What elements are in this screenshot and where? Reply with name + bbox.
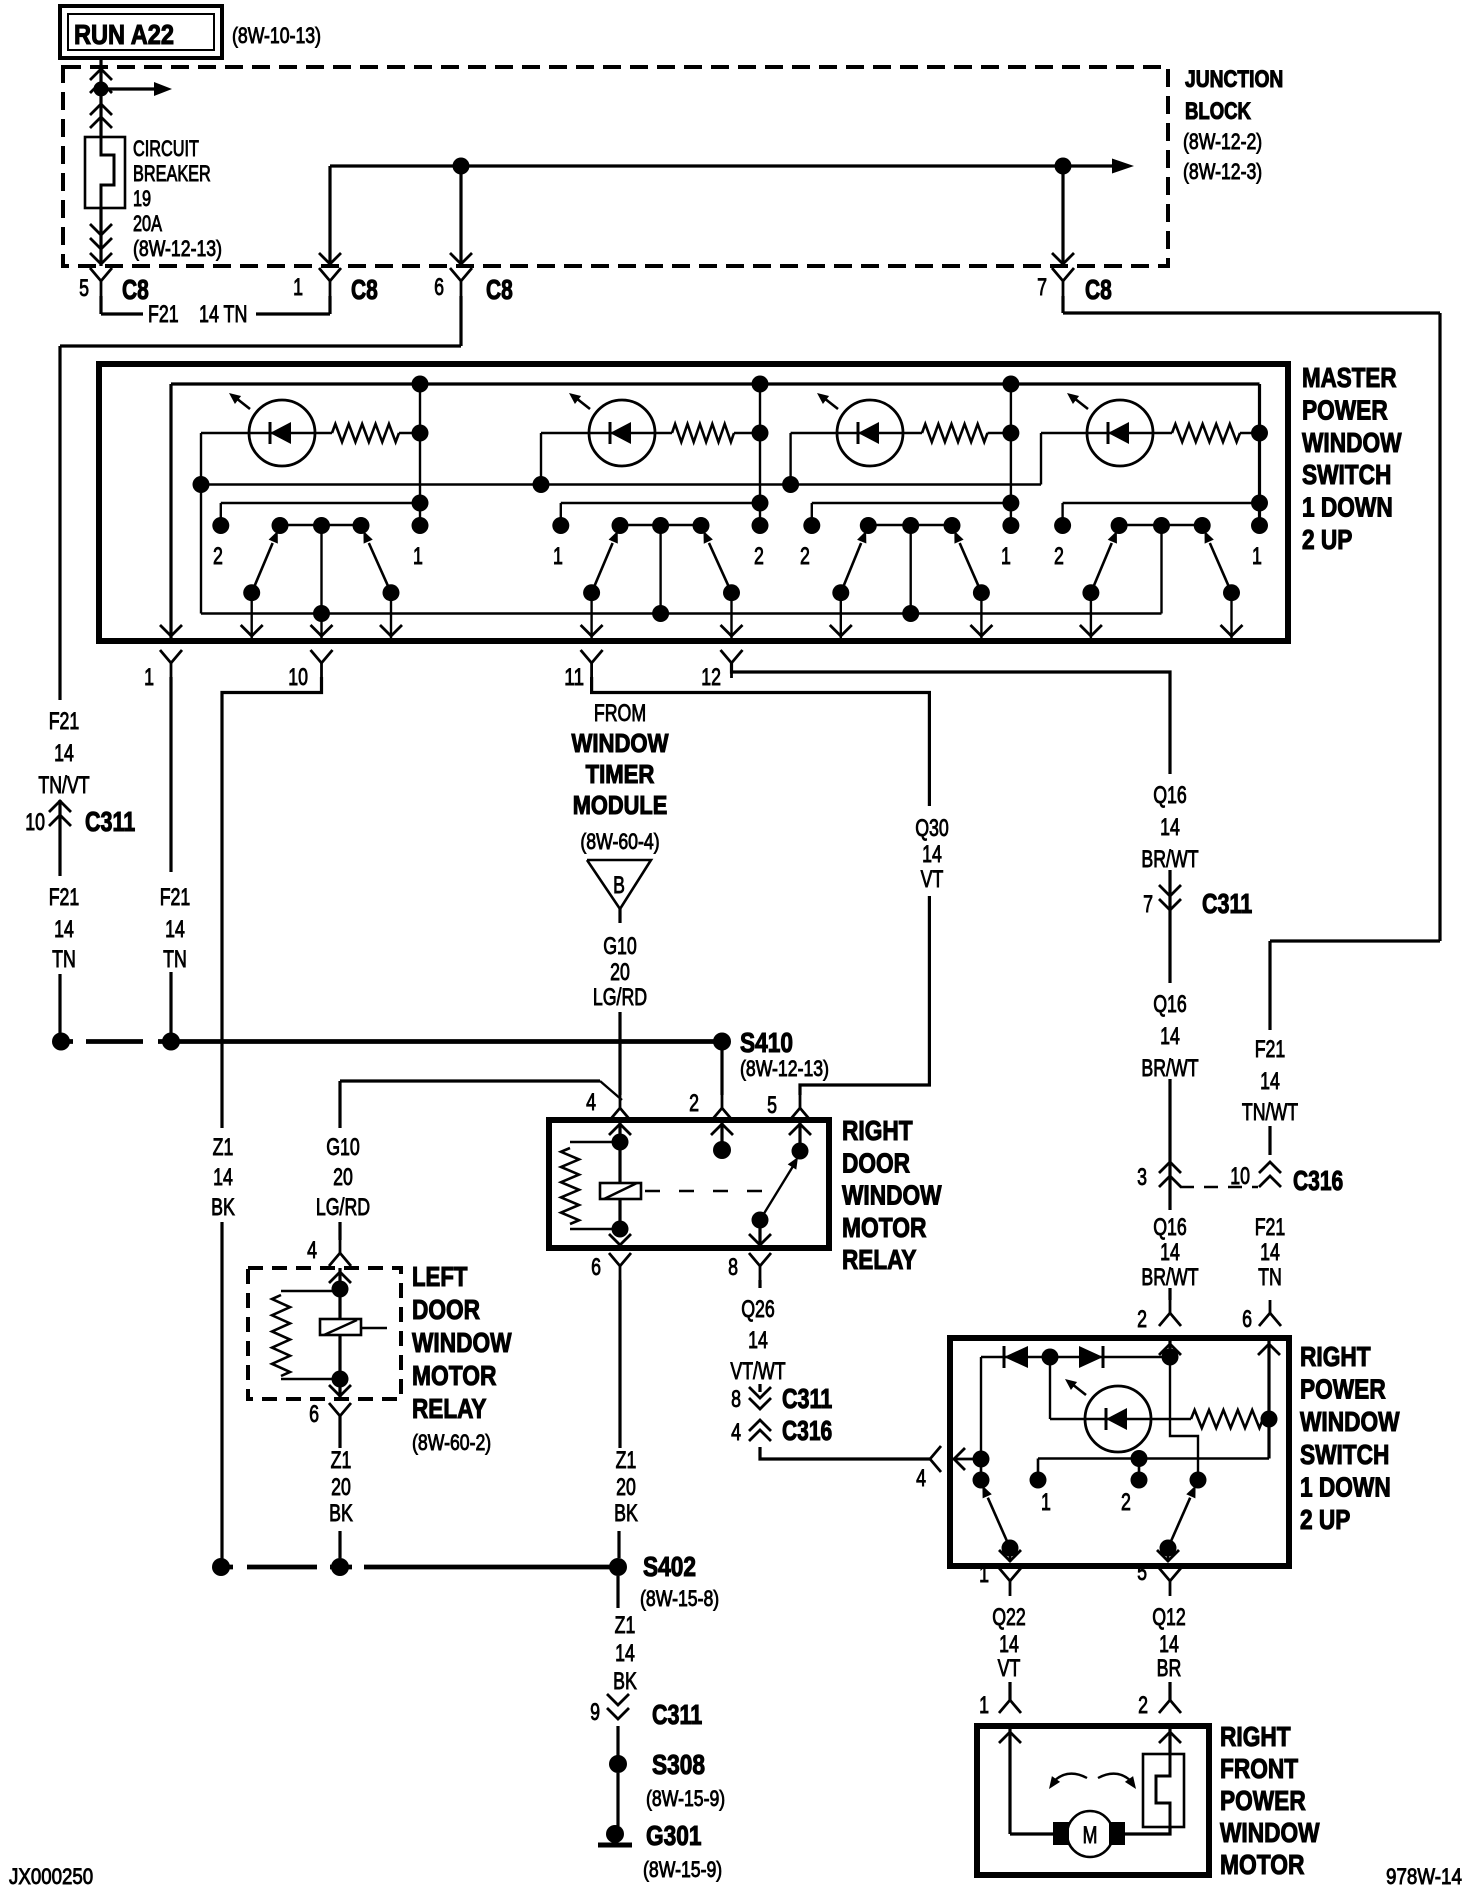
svg-text:(8W-60-2): (8W-60-2): [412, 1430, 491, 1455]
svg-text:10: 10: [1230, 1163, 1250, 1190]
svg-text:10: 10: [288, 664, 308, 691]
svg-text:14: 14: [922, 841, 942, 868]
svg-text:CIRCUIT: CIRCUIT: [133, 136, 199, 161]
svg-text:14: 14: [999, 1631, 1019, 1658]
svg-text:1: 1: [979, 1561, 989, 1588]
svg-text:6: 6: [1242, 1306, 1252, 1333]
svg-text:BR/WT: BR/WT: [1141, 846, 1198, 873]
svg-text:RUN A22: RUN A22: [74, 19, 174, 50]
svg-text:20: 20: [333, 1164, 353, 1191]
svg-text:9: 9: [590, 1699, 600, 1726]
svg-text:20: 20: [610, 959, 630, 986]
svg-text:RIGHT: RIGHT: [1300, 1341, 1371, 1372]
svg-text:Z1: Z1: [331, 1447, 352, 1474]
svg-text:(8W-12-13): (8W-12-13): [133, 236, 222, 261]
svg-text:F21: F21: [160, 884, 191, 911]
svg-text:(8W-12-13): (8W-12-13): [740, 1056, 829, 1081]
svg-text:978W-14: 978W-14: [1386, 1864, 1462, 1889]
svg-text:14: 14: [165, 916, 185, 943]
svg-text:G10: G10: [603, 933, 637, 960]
svg-text:F21: F21: [148, 301, 179, 328]
svg-text:14: 14: [1160, 1239, 1180, 1266]
svg-text:C8: C8: [486, 274, 513, 305]
svg-text:M: M: [1083, 1822, 1098, 1849]
svg-text:S308: S308: [652, 1749, 705, 1780]
svg-text:Q22: Q22: [992, 1604, 1026, 1631]
svg-text:RIGHT: RIGHT: [842, 1115, 913, 1146]
svg-text:5: 5: [767, 1092, 777, 1119]
svg-text:WINDOW: WINDOW: [1302, 427, 1402, 458]
svg-text:RELAY: RELAY: [412, 1393, 487, 1424]
svg-text:2: 2: [1137, 1306, 1147, 1333]
svg-text:G10: G10: [326, 1134, 360, 1161]
svg-text:F21: F21: [1255, 1214, 1286, 1241]
svg-text:TN: TN: [52, 946, 76, 973]
svg-text:12: 12: [701, 664, 721, 691]
svg-text:11: 11: [564, 664, 584, 691]
svg-text:2: 2: [754, 543, 764, 570]
svg-text:Z1: Z1: [615, 1612, 636, 1639]
svg-text:C8: C8: [351, 274, 378, 305]
svg-text:(8W-12-3): (8W-12-3): [1183, 159, 1262, 184]
svg-text:1 DOWN: 1 DOWN: [1300, 1471, 1391, 1502]
svg-text:C316: C316: [782, 1415, 832, 1446]
svg-text:14 TN: 14 TN: [199, 301, 247, 328]
svg-text:1: 1: [413, 543, 423, 570]
svg-text:(8W-15-9): (8W-15-9): [646, 1786, 725, 1811]
svg-text:BK: BK: [614, 1500, 638, 1527]
svg-text:1: 1: [1001, 543, 1011, 570]
svg-text:BR: BR: [1157, 1655, 1182, 1682]
svg-text:20: 20: [331, 1474, 351, 1501]
svg-text:1: 1: [553, 543, 563, 570]
svg-text:TN: TN: [163, 946, 187, 973]
svg-text:6: 6: [434, 274, 444, 301]
svg-text:4: 4: [307, 1237, 317, 1264]
svg-text:14: 14: [1159, 1631, 1179, 1658]
svg-text:2: 2: [689, 1090, 699, 1117]
svg-text:BR/WT: BR/WT: [1141, 1264, 1198, 1291]
svg-text:14: 14: [54, 916, 74, 943]
svg-text:MODULE: MODULE: [573, 790, 668, 820]
svg-text:LG/RD: LG/RD: [593, 984, 647, 1011]
svg-text:VT: VT: [921, 866, 944, 893]
svg-text:1: 1: [144, 664, 154, 691]
svg-text:2: 2: [800, 543, 810, 570]
svg-text:8: 8: [728, 1254, 738, 1281]
svg-text:14: 14: [1160, 814, 1180, 841]
svg-text:14: 14: [1160, 1023, 1180, 1050]
svg-text:DOOR: DOOR: [842, 1147, 910, 1178]
svg-text:C311: C311: [652, 1699, 702, 1730]
svg-text:LG/RD: LG/RD: [316, 1194, 370, 1221]
svg-text:2: 2: [213, 543, 223, 570]
svg-text:(8W-10-13): (8W-10-13): [232, 23, 321, 48]
svg-text:MOTOR: MOTOR: [842, 1212, 926, 1243]
svg-text:4: 4: [731, 1419, 741, 1446]
svg-text:B: B: [613, 872, 625, 899]
svg-text:VT/WT: VT/WT: [730, 1358, 786, 1385]
svg-text:F21: F21: [49, 708, 80, 735]
svg-text:C316: C316: [1293, 1165, 1343, 1196]
svg-text:POWER: POWER: [1220, 1785, 1306, 1816]
svg-text:4: 4: [916, 1465, 926, 1492]
svg-text:POWER: POWER: [1302, 394, 1388, 425]
svg-text:1: 1: [293, 274, 303, 301]
svg-text:1: 1: [1041, 1489, 1051, 1516]
svg-text:Q12: Q12: [1152, 1604, 1186, 1631]
svg-text:6: 6: [309, 1401, 319, 1428]
svg-text:14: 14: [54, 740, 74, 767]
svg-text:DOOR: DOOR: [412, 1294, 480, 1325]
svg-text:7: 7: [1143, 891, 1153, 918]
svg-text:BK: BK: [329, 1500, 353, 1527]
svg-text:WINDOW: WINDOW: [412, 1327, 512, 1358]
svg-text:WINDOW: WINDOW: [1220, 1817, 1320, 1848]
svg-text:WINDOW: WINDOW: [842, 1180, 942, 1211]
svg-text:Q16: Q16: [1153, 991, 1187, 1018]
svg-text:TN/WT: TN/WT: [1242, 1099, 1298, 1126]
svg-text:FROM: FROM: [594, 700, 646, 727]
svg-text:(8W-60-4): (8W-60-4): [580, 829, 659, 854]
svg-text:MOTOR: MOTOR: [1220, 1849, 1304, 1880]
svg-text:4: 4: [586, 1089, 596, 1116]
svg-text:S402: S402: [643, 1551, 696, 1582]
svg-text:7: 7: [1037, 274, 1047, 301]
svg-text:14: 14: [748, 1327, 768, 1354]
svg-text:SWITCH: SWITCH: [1302, 459, 1391, 490]
svg-text:F21: F21: [1255, 1036, 1286, 1063]
svg-text:(8W-15-9): (8W-15-9): [643, 1857, 722, 1882]
svg-text:5: 5: [79, 275, 89, 302]
svg-text:10: 10: [25, 809, 45, 836]
svg-text:19: 19: [133, 186, 151, 211]
svg-text:Q26: Q26: [741, 1296, 775, 1323]
svg-text:FRONT: FRONT: [1220, 1753, 1298, 1784]
svg-text:C311: C311: [1202, 888, 1252, 919]
svg-text:1: 1: [979, 1692, 989, 1719]
svg-text:BK: BK: [613, 1668, 637, 1695]
svg-text:RELAY: RELAY: [842, 1244, 917, 1275]
svg-text:2 UP: 2 UP: [1302, 524, 1352, 555]
svg-text:POWER: POWER: [1300, 1374, 1386, 1405]
svg-text:2: 2: [1138, 1692, 1148, 1719]
svg-text:F21: F21: [49, 884, 80, 911]
svg-text:BREAKER: BREAKER: [133, 161, 211, 186]
svg-text:TN: TN: [1258, 1264, 1282, 1291]
svg-text:Z1: Z1: [616, 1447, 637, 1474]
svg-text:C311: C311: [782, 1383, 832, 1414]
svg-text:WINDOW: WINDOW: [572, 728, 669, 758]
svg-text:Q16: Q16: [1153, 1214, 1187, 1241]
svg-text:RIGHT: RIGHT: [1220, 1721, 1291, 1752]
svg-text:MASTER: MASTER: [1302, 362, 1397, 393]
svg-text:20: 20: [616, 1474, 636, 1501]
svg-text:TN/VT: TN/VT: [38, 772, 90, 799]
svg-text:8: 8: [731, 1386, 741, 1413]
svg-text:6: 6: [591, 1254, 601, 1281]
svg-text:C311: C311: [85, 806, 135, 837]
svg-text:C8: C8: [1085, 274, 1112, 305]
svg-text:14: 14: [1260, 1068, 1280, 1095]
svg-text:3: 3: [1137, 1164, 1147, 1191]
svg-text:20A: 20A: [133, 211, 162, 236]
svg-text:14: 14: [1260, 1239, 1280, 1266]
svg-text:1 DOWN: 1 DOWN: [1302, 492, 1393, 523]
svg-text:14: 14: [213, 1164, 233, 1191]
svg-text:2 UP: 2 UP: [1300, 1504, 1350, 1535]
svg-text:1: 1: [1252, 543, 1262, 570]
svg-text:JX000250: JX000250: [9, 1864, 93, 1889]
svg-text:BLOCK: BLOCK: [1185, 98, 1251, 125]
svg-text:Z1: Z1: [213, 1134, 234, 1161]
svg-text:VT: VT: [998, 1655, 1021, 1682]
svg-text:BK: BK: [211, 1194, 235, 1221]
svg-text:2: 2: [1121, 1489, 1131, 1516]
svg-text:(8W-12-2): (8W-12-2): [1183, 129, 1262, 154]
svg-text:JUNCTION: JUNCTION: [1185, 66, 1283, 93]
svg-text:Q16: Q16: [1153, 782, 1187, 809]
svg-text:TIMER: TIMER: [586, 759, 655, 789]
svg-text:LEFT: LEFT: [412, 1261, 468, 1292]
svg-text:WINDOW: WINDOW: [1300, 1406, 1400, 1437]
svg-text:SWITCH: SWITCH: [1300, 1439, 1389, 1470]
svg-text:G301: G301: [646, 1820, 702, 1851]
svg-text:BR/WT: BR/WT: [1141, 1055, 1198, 1082]
svg-text:(8W-15-8): (8W-15-8): [640, 1586, 719, 1611]
svg-text:MOTOR: MOTOR: [412, 1360, 496, 1391]
svg-text:2: 2: [1054, 543, 1064, 570]
svg-text:S410: S410: [740, 1027, 793, 1058]
svg-text:14: 14: [615, 1640, 635, 1667]
svg-text:5: 5: [1137, 1559, 1147, 1586]
svg-text:Q30: Q30: [915, 815, 949, 842]
